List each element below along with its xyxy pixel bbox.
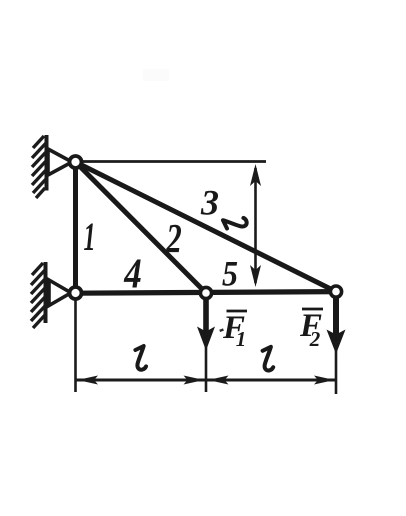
- top wall hatching: [32, 136, 46, 198]
- svg-text:1: 1: [236, 327, 247, 351]
- member 1: [73, 162, 78, 293]
- svg-text:1: 1: [84, 214, 96, 259]
- dim arrow mid-right: [208, 376, 229, 385]
- bottom wall hatching: [31, 263, 45, 328]
- bottom chord members 4 and 5: [76, 292, 337, 294]
- force label F2: [299, 308, 323, 351]
- vertical dimension line l: [250, 164, 261, 287]
- node B bottom-middle: [200, 287, 211, 298]
- scan smudge: [143, 69, 169, 81]
- svg-text:2: 2: [309, 327, 321, 351]
- bottom dimension line: [76, 379, 336, 382]
- dim arrow mid-left: [184, 376, 205, 385]
- force F2 arrow: [327, 292, 346, 354]
- svg-text:2: 2: [165, 215, 181, 261]
- member 2: [76, 162, 207, 293]
- svg-text:3: 3: [200, 183, 219, 223]
- top support triangle: [48, 149, 72, 175]
- bottom wall line: [44, 262, 48, 323]
- label l left span: [135, 346, 146, 370]
- extension line at x=206: [205, 299, 208, 392]
- svg-text:4: 4: [123, 252, 141, 298]
- node C bottom-right: [330, 286, 341, 297]
- dim arrow right: [314, 376, 335, 385]
- extension line at x=75.5: [74, 299, 77, 392]
- force F1 arrow: [197, 293, 215, 351]
- dim arrow left: [78, 376, 99, 385]
- label l rotated (vertical dimension): [223, 218, 247, 229]
- top wall line: [45, 135, 49, 191]
- ink speck: [219, 328, 224, 332]
- top reference line: [80, 160, 266, 163]
- node T top-left: [70, 156, 82, 168]
- bottom support triangle: [49, 280, 71, 306]
- extension line at x=336: [335, 299, 338, 394]
- svg-text:5: 5: [222, 254, 238, 294]
- member 3: [76, 162, 337, 292]
- label l right span: [263, 347, 274, 371]
- node A bottom-left: [70, 287, 82, 299]
- force label F1: [222, 310, 247, 351]
